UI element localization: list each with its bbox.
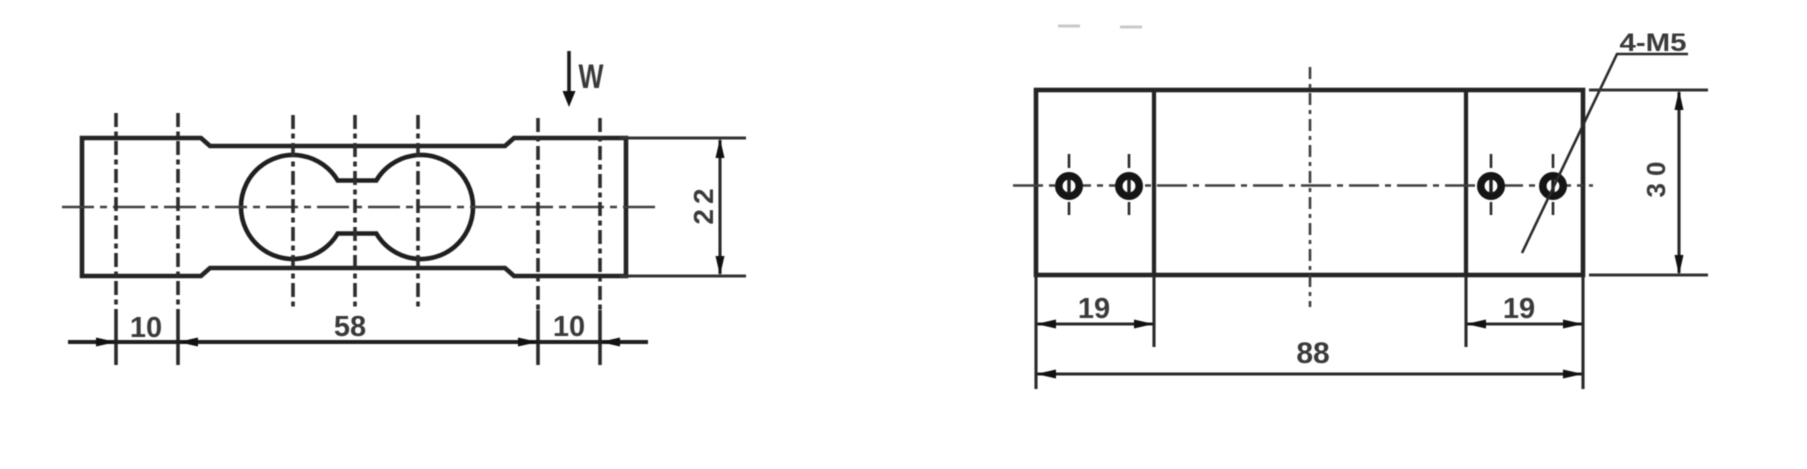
- svg-text:W: W: [579, 58, 605, 96]
- vertical dashed line x178: [176, 113, 180, 310]
- hole 1: [1059, 154, 1079, 215]
- leader line: [1522, 54, 1617, 253]
- horizontal centerline (side view): [62, 206, 656, 209]
- dimension line 30: [1677, 92, 1680, 273]
- extension ticks bottom dim: [114, 310, 118, 365]
- extension lines for dim 22: [620, 137, 746, 140]
- dimension line 22: [718, 140, 721, 274]
- faint artifact marks: [1058, 25, 1080, 28]
- svg-text:58: 58: [334, 311, 366, 343]
- svg-text:19: 19: [1503, 293, 1535, 325]
- extension line below x1036: [1034, 275, 1037, 389]
- hole 3: [1481, 154, 1501, 215]
- bottom dimension line: [68, 340, 648, 344]
- vertical dashed line x355: [353, 115, 357, 307]
- svg-text:30: 30: [1641, 155, 1671, 198]
- horizontal centerline (top view): [1013, 184, 1593, 187]
- dimension line 88: [1036, 372, 1583, 375]
- hole 2: [1119, 154, 1139, 215]
- vertical dashed line x293: [291, 115, 295, 307]
- extension line below x1466: [1464, 275, 1467, 347]
- svg-text:19: 19: [1078, 293, 1110, 325]
- dimension line 19 left: [1036, 322, 1154, 325]
- hole 4: [1543, 154, 1563, 215]
- binocular cutout: [241, 155, 473, 259]
- internal line x1154: [1152, 90, 1156, 275]
- top view rectangle: [1036, 90, 1583, 275]
- vertical dashed line x538: [536, 118, 540, 312]
- vertical dashed line x600: [598, 118, 602, 312]
- svg-text:88: 88: [1296, 337, 1329, 370]
- load arrow W: [567, 51, 571, 93]
- beam outline (side view): [82, 138, 626, 276]
- extension line below x1154: [1152, 275, 1155, 347]
- svg-text:10: 10: [130, 312, 162, 344]
- dimension line 19 right: [1466, 322, 1583, 325]
- arrows bottom dim: [96, 338, 116, 347]
- extension lines dim 30: [1589, 89, 1708, 92]
- vertical dashed line x116: [114, 113, 118, 310]
- svg-text:10: 10: [553, 311, 585, 343]
- leader underline: [1616, 53, 1688, 56]
- svg-text:22: 22: [688, 183, 719, 224]
- internal line x1466: [1464, 90, 1468, 275]
- vertical centerline (top view): [1309, 67, 1312, 307]
- vertical dashed line x418: [416, 115, 420, 307]
- extension line below x1583: [1581, 275, 1584, 389]
